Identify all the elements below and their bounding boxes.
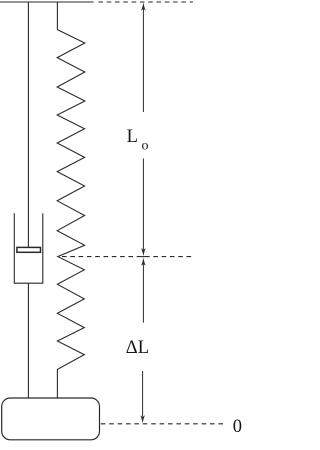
svg-text:L: L <box>127 127 138 147</box>
arrowhead up at mid line (dL) <box>141 257 146 265</box>
arrowhead down at bottom line (dL) <box>140 415 145 423</box>
svg-text:0: 0 <box>233 417 242 437</box>
svg-text:ΔL: ΔL <box>126 338 149 358</box>
ceiling line <box>0 1 94 3</box>
mass <box>2 398 100 440</box>
damper rod lower <box>27 283 29 398</box>
spring <box>57 2 85 398</box>
mid reference line dash at crossing <box>141 256 145 258</box>
damper piston <box>17 247 41 252</box>
dimension dL upper segment <box>142 264 144 323</box>
dimension dL lower segment <box>142 371 144 417</box>
arrowhead down at mid line (Lo) <box>141 248 146 256</box>
dimension Lo upper segment <box>142 8 144 112</box>
damper rod upper <box>27 2 29 247</box>
bottom reference dashed line <box>101 423 223 425</box>
mid reference dashed line <box>62 256 194 258</box>
arrowhead up at ceiling <box>141 2 146 10</box>
svg-text:o: o <box>142 138 149 153</box>
dimension Lo lower segment <box>142 159 144 250</box>
ceiling dashed extension <box>98 1 193 3</box>
damper cylinder <box>14 213 43 283</box>
